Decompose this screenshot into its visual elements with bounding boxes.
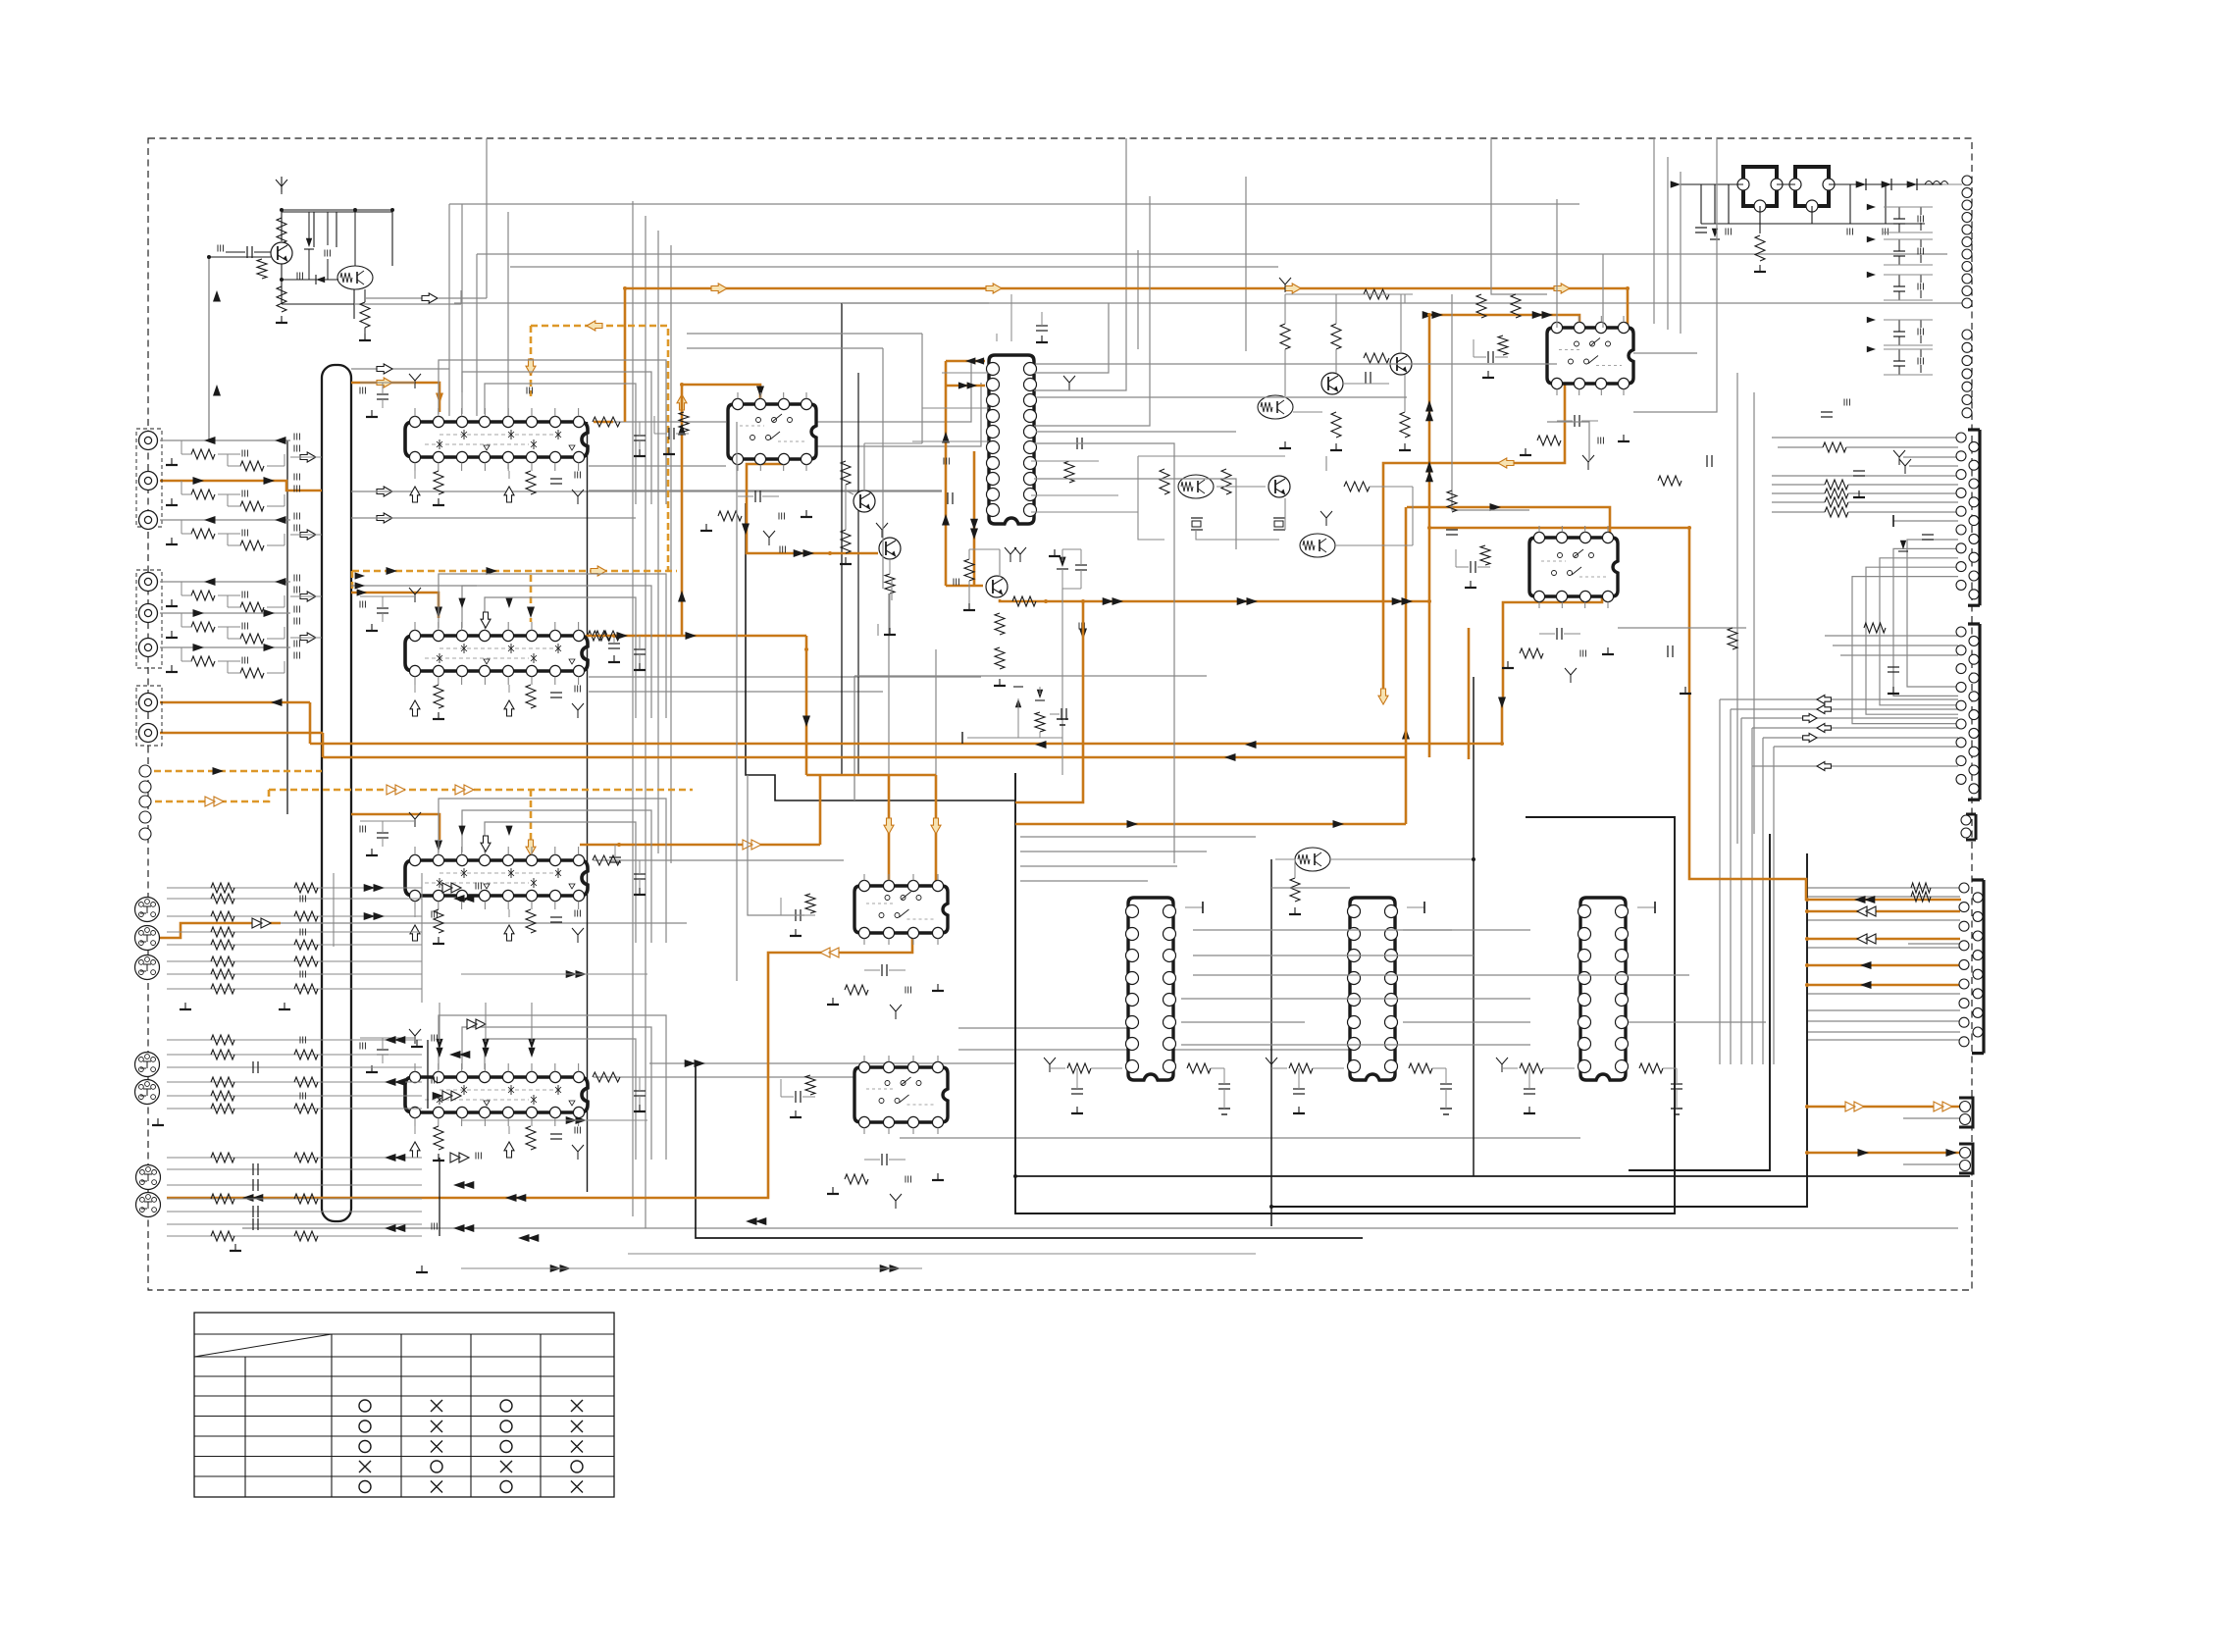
bypass capacitor (1671, 1068, 1682, 1089)
wire (1736, 373, 1738, 844)
signal flow arrow (204, 516, 216, 524)
wire (286, 440, 288, 814)
resistor (841, 461, 851, 485)
wire (336, 212, 337, 247)
ground (166, 498, 178, 505)
signal flow arrow (1402, 728, 1410, 740)
wire (1539, 526, 1608, 608)
signal flow arrow (1285, 284, 1301, 293)
signal flow arrow (458, 598, 465, 608)
rectifier diode (1907, 179, 1917, 190)
resistor (1160, 469, 1169, 494)
signal flow arrow (743, 840, 761, 850)
wire (1772, 511, 1825, 513)
wire (181, 582, 285, 607)
wire (167, 915, 422, 917)
bead (294, 434, 299, 452)
resistor (240, 501, 264, 511)
signal flow arrow (591, 566, 606, 576)
wire (360, 382, 415, 384)
signal wire (580, 844, 820, 847)
polarized capacitor (1057, 719, 1068, 725)
RCA jack J102 (139, 472, 158, 490)
wire (1825, 635, 1958, 637)
ground (932, 984, 944, 991)
wire (1680, 172, 1682, 334)
signal flow arrow (1392, 597, 1413, 605)
resistor (211, 1194, 234, 1204)
bypass capacitor (1893, 207, 1905, 232)
signal flow arrow (364, 884, 385, 892)
capacitor (1853, 471, 1865, 476)
wire (531, 1003, 533, 1042)
signal wire (160, 701, 310, 704)
signal flow arrow (1867, 346, 1876, 352)
signal wire (819, 775, 822, 845)
bead (780, 546, 785, 553)
bypass capacitor (1893, 239, 1905, 265)
open arrow (300, 592, 316, 601)
relay RY2 (1789, 167, 1835, 212)
wire (160, 439, 290, 441)
wire (1773, 747, 1775, 1064)
wire (816, 363, 971, 422)
signal flow arrow (1860, 981, 1872, 989)
signal flow arrow (436, 1039, 442, 1058)
bead (300, 1093, 305, 1100)
signal flow arrow (449, 1051, 470, 1058)
chassis ground (572, 703, 584, 718)
wire (746, 503, 1015, 800)
polarized capacitor (1440, 1089, 1452, 1114)
wire (439, 1003, 440, 1042)
wire (1942, 183, 1962, 185)
signal flow arrow (986, 284, 1002, 293)
wire (438, 138, 487, 298)
wire (462, 372, 651, 504)
resistor (294, 984, 318, 994)
filter capacitor (1539, 628, 1580, 640)
wire (485, 822, 636, 943)
resistor (841, 530, 851, 553)
connector group box (136, 686, 162, 746)
bypass capacitor (1918, 275, 1923, 298)
DIN jack J109 (135, 898, 160, 922)
signal flow arrow (1857, 906, 1876, 916)
bead (242, 592, 247, 598)
chassis ground (572, 1145, 584, 1160)
signal wire (156, 923, 281, 938)
signal flow arrow (271, 698, 283, 706)
resistor (1035, 712, 1045, 732)
signal flow arrow (453, 1181, 474, 1189)
resistor (593, 1072, 620, 1082)
chassis ground (876, 523, 888, 538)
connector CN904 (1956, 624, 1980, 800)
bypass capacitor (550, 693, 562, 697)
transistor Q101 (271, 242, 292, 264)
wire (969, 549, 1000, 603)
wire (1728, 184, 1730, 224)
bead (360, 1043, 365, 1050)
wire (736, 422, 738, 981)
signal flow arrow (213, 385, 221, 396)
resistor (1825, 480, 1848, 490)
open arrow (410, 487, 420, 502)
transistor Q203 (1390, 353, 1412, 375)
signal flow arrow (686, 632, 698, 640)
resistor (1498, 336, 1508, 355)
ground (884, 628, 896, 635)
resistor (1221, 469, 1231, 494)
wire (1811, 206, 1813, 224)
ground (1618, 435, 1630, 441)
ground (1465, 581, 1476, 588)
wire (421, 873, 423, 1003)
bead (294, 606, 299, 625)
chassis ground (890, 1005, 902, 1019)
wire (427, 1040, 429, 1109)
wire (1137, 250, 1139, 349)
wire (1807, 1020, 1960, 1022)
ground (1049, 549, 1061, 556)
IC206 analog switch (1547, 322, 1633, 388)
wire (167, 931, 422, 933)
signal flow arrow (1817, 724, 1831, 733)
wire (167, 1198, 422, 1200)
wire (1653, 138, 1655, 324)
bypass capacitor (1218, 1068, 1230, 1089)
wire (1062, 549, 1081, 589)
signal flow arrow (566, 1116, 587, 1124)
wire (1020, 880, 1148, 882)
bead (954, 579, 958, 586)
DIN jack J113 (135, 1080, 160, 1105)
signal wire (1428, 315, 1431, 757)
wire (1763, 737, 1958, 739)
signal flow arrow (1425, 461, 1433, 482)
bead (1580, 650, 1585, 657)
wire (687, 333, 922, 335)
wire (1036, 396, 1407, 398)
wire (167, 898, 422, 900)
ground (790, 929, 802, 936)
capacitor (1668, 645, 1673, 657)
resistor (995, 647, 1005, 669)
wire (670, 245, 672, 863)
bead (242, 623, 247, 630)
wire (1759, 206, 1761, 233)
wire (921, 334, 923, 443)
open arrow (377, 364, 392, 374)
resistor (211, 956, 234, 966)
signal flow arrow (942, 432, 950, 443)
signal flow arrow (678, 591, 686, 602)
resistor R901 (1755, 235, 1765, 261)
bead (360, 601, 365, 608)
bypass capacitor (377, 1038, 388, 1063)
ground tab (1185, 902, 1203, 913)
ground (166, 538, 178, 544)
IC203 input selector (405, 854, 588, 901)
diode D102 (316, 275, 325, 284)
chassis ground (1266, 1058, 1277, 1072)
ground (1399, 443, 1411, 450)
wire (1036, 363, 1557, 365)
capacitor (253, 1218, 258, 1230)
DIN jack J115 (136, 1193, 161, 1217)
wire (958, 1049, 1350, 1051)
wire (632, 201, 634, 1216)
wire (415, 622, 579, 685)
resistor (1480, 545, 1490, 565)
signal bus trunk (322, 365, 351, 1221)
wire (935, 649, 937, 775)
wire (594, 635, 746, 637)
wire (1807, 919, 1960, 921)
wire (461, 973, 647, 975)
ground (608, 655, 620, 662)
relay RY1 (1737, 167, 1783, 212)
IC207 analog switch (1529, 532, 1618, 601)
resistor (240, 461, 264, 471)
signal flow arrow (387, 567, 398, 575)
signal flow arrow (1845, 1102, 1864, 1111)
ground (663, 447, 675, 454)
resistor (1864, 623, 1886, 633)
ground (366, 410, 378, 417)
wire (1740, 718, 1742, 1064)
resistor (191, 449, 215, 459)
connector CN907 (1959, 1098, 1973, 1127)
wire (1181, 1021, 1305, 1023)
signal wire (1807, 984, 1960, 987)
IC208 analog switch (854, 880, 948, 938)
open arrow (300, 530, 316, 540)
wire (864, 1056, 938, 1134)
signal wire (1383, 384, 1565, 701)
protection diode (1710, 229, 1720, 239)
signal wire (dashed) (352, 570, 677, 573)
signal flow arrow (193, 609, 205, 617)
bead (242, 450, 247, 457)
ground (152, 1118, 164, 1125)
ground (634, 449, 646, 456)
wire (1061, 589, 1063, 775)
signal flow arrow (1817, 696, 1831, 704)
open arrow (504, 700, 514, 716)
wire (1020, 836, 1256, 838)
signal wire (586, 635, 806, 638)
signal flow arrow (204, 578, 216, 586)
chassis ground (572, 490, 584, 504)
wire (1848, 501, 1958, 503)
wire (1181, 1044, 1530, 1046)
signal flow arrow (1425, 400, 1433, 421)
wire (1403, 929, 1530, 931)
signal wire (1000, 599, 1429, 601)
bead (432, 1077, 437, 1084)
wire (485, 597, 636, 718)
bead (1079, 623, 1084, 630)
bypass capacitor (1293, 1089, 1305, 1094)
connector CN906 (1959, 880, 1984, 1054)
filter capacitor (654, 428, 689, 439)
signal flow arrow (242, 1194, 263, 1202)
chassis ground (1005, 547, 1016, 562)
wire (1271, 887, 1350, 889)
transistor Q209 (986, 576, 1008, 597)
mode table (194, 1313, 614, 1497)
signal flow arrow (264, 644, 276, 651)
signal flow arrow (958, 382, 977, 388)
wire (1893, 548, 1958, 696)
resistor (1290, 878, 1300, 902)
signal flow arrow (204, 437, 216, 444)
capacitor (1075, 549, 1087, 589)
ground (634, 888, 646, 895)
wire (364, 289, 366, 334)
signal flow arrow (1378, 689, 1388, 704)
signal flow arrow (1237, 597, 1258, 605)
bead (527, 387, 532, 394)
signal flow arrow (1498, 458, 1514, 468)
signal flow arrow (205, 797, 224, 806)
wire (167, 1211, 422, 1213)
resistor (191, 622, 215, 632)
signal wire (625, 288, 1628, 422)
capacitor (1050, 708, 1066, 720)
wire (461, 1119, 647, 1121)
signal wire (1807, 1152, 1960, 1155)
resistor R104 (360, 302, 370, 328)
resistor (434, 471, 443, 494)
wire (594, 421, 726, 423)
crystal X202 (1273, 518, 1285, 530)
signal flow arrow (482, 1039, 489, 1058)
DIN jack J112 (135, 1053, 160, 1077)
ground tab (1407, 902, 1424, 913)
ground (634, 663, 646, 670)
wire (1772, 484, 1825, 486)
bypass capacitor (550, 917, 562, 922)
bypass capacitor (377, 821, 388, 847)
signal wire (dashed) (530, 790, 533, 850)
resistor (1823, 442, 1846, 452)
signal wire (946, 360, 985, 363)
resistor (294, 940, 318, 950)
signal wire (1015, 823, 1406, 826)
transistor Q204 (1178, 475, 1214, 498)
ground tab (1892, 515, 1894, 527)
wire (1731, 708, 1958, 710)
connector CN101 (139, 765, 151, 840)
wire (1285, 294, 1413, 412)
wire (1807, 887, 1960, 889)
ground (1888, 687, 1899, 694)
signal flow arrow (526, 359, 536, 375)
signal flow arrow (1561, 330, 1573, 337)
resistor (593, 417, 620, 427)
IC204 input selector (405, 1071, 588, 1117)
resistor (211, 984, 234, 994)
wire (282, 210, 392, 266)
resistor (1520, 1063, 1543, 1073)
bypass capacitor (1071, 1089, 1083, 1094)
wire (1893, 520, 1958, 522)
ground (166, 599, 178, 606)
resistor (1476, 294, 1486, 318)
ground (276, 316, 287, 323)
wire (360, 1037, 415, 1039)
IC403 buffer (1578, 898, 1629, 1080)
connector CN905 (1961, 814, 1976, 840)
wire (1772, 492, 1825, 494)
ground (433, 937, 444, 944)
wire (1502, 1068, 1575, 1089)
bead (944, 458, 949, 465)
filter capacitor (1077, 438, 1082, 449)
open arrow (481, 836, 491, 852)
signal wire (946, 585, 983, 588)
mode table marks (359, 1400, 583, 1493)
capacitor (1446, 530, 1458, 535)
signal flow arrow (1103, 597, 1123, 605)
wire (594, 1076, 888, 1078)
wire (889, 560, 891, 628)
resistor (526, 909, 536, 933)
filter capacitor (1557, 415, 1598, 427)
resistor (211, 940, 234, 950)
wire (1629, 834, 1770, 1170)
IC209 analog switch (854, 1061, 948, 1127)
capacitor (253, 1163, 258, 1175)
wire (208, 257, 210, 440)
resistor (1280, 324, 1290, 349)
wire (864, 874, 938, 945)
signal flow arrow (518, 1234, 539, 1242)
wire (816, 383, 981, 446)
diode (1035, 687, 1045, 700)
connector CN901 (1962, 176, 1972, 308)
resistor (211, 1035, 234, 1045)
IC301 control (987, 355, 1037, 524)
wire (462, 810, 651, 943)
wire (1681, 183, 1743, 185)
wire (167, 1108, 422, 1110)
resistor (526, 471, 536, 494)
connector group box (136, 429, 162, 527)
wire (454, 302, 1970, 304)
signal flow arrow (275, 437, 286, 444)
signal flow arrow (1858, 1149, 1870, 1157)
wire (281, 177, 283, 192)
wire junction (207, 208, 1475, 1209)
wire (1245, 177, 1247, 351)
bypass capacitor (634, 1077, 646, 1105)
wire (351, 585, 477, 587)
signal flow arrow (385, 1224, 405, 1232)
IC402 buffer (1348, 898, 1398, 1080)
bead (1883, 229, 1888, 235)
resistor (294, 1153, 318, 1162)
wire (589, 465, 726, 467)
wire (209, 256, 271, 258)
bead (325, 212, 330, 280)
chassis ground (276, 180, 287, 194)
wire (1849, 184, 1851, 224)
ground (411, 1040, 423, 1047)
